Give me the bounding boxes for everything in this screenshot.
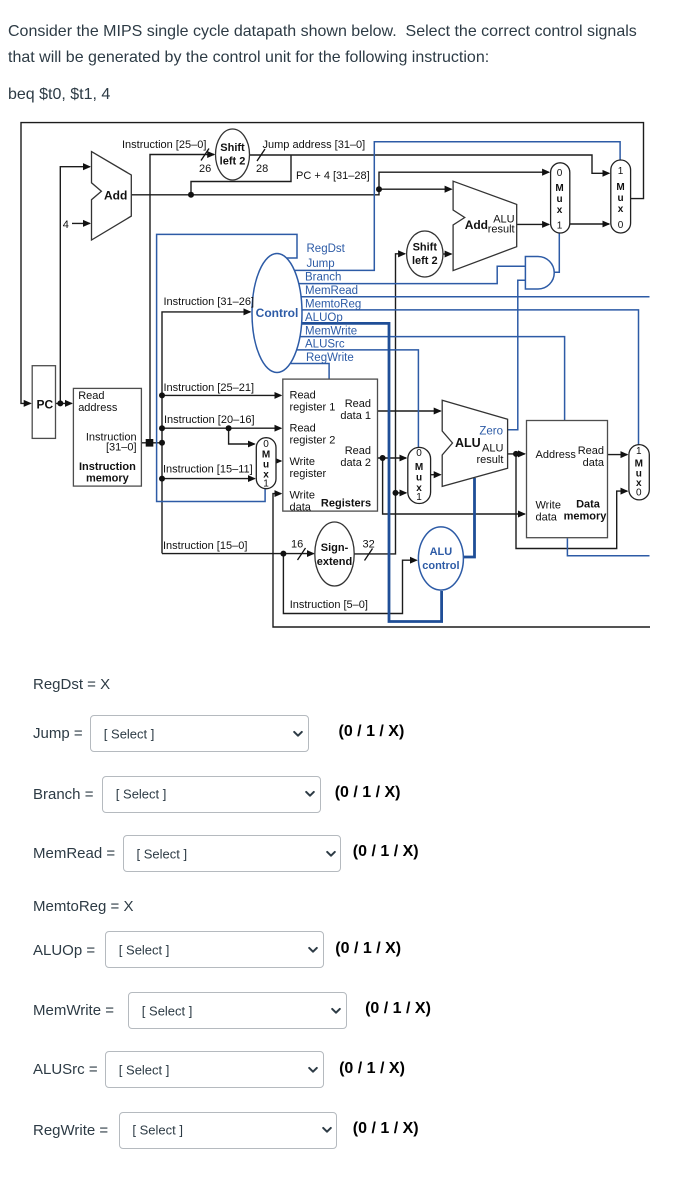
svg-text:0: 0 (263, 439, 269, 450)
svg-text:32: 32 (363, 539, 375, 551)
svg-text:PC + 4 [31–28]: PC + 4 [31–28] (296, 170, 370, 182)
svg-text:Add: Add (465, 218, 488, 232)
svg-text:[31–0]: [31–0] (106, 442, 137, 454)
svg-text:Read: Read (78, 390, 104, 402)
svg-text:memory: memory (86, 473, 130, 485)
svg-text:Registers: Registers (321, 498, 371, 510)
svg-text:data: data (290, 502, 312, 514)
svg-text:MemRead: MemRead (305, 285, 358, 297)
svg-text:28: 28 (256, 163, 268, 175)
svg-text:data 2: data 2 (340, 457, 371, 469)
svg-text:ALUOp: ALUOp (305, 312, 343, 324)
svg-text:register 1: register 1 (290, 402, 336, 414)
svg-text:Read: Read (578, 445, 604, 457)
svg-text:x: x (416, 483, 422, 494)
svg-text:Branch: Branch (305, 272, 341, 284)
svg-text:Read: Read (290, 390, 316, 402)
svg-text:Instruction [31–26]: Instruction [31–26] (164, 296, 255, 308)
svg-text:ALU: ALU (430, 546, 453, 558)
svg-text:Read: Read (345, 398, 371, 410)
svg-text:0: 0 (636, 488, 642, 499)
svg-text:u: u (556, 194, 562, 205)
svg-text:x: x (557, 205, 563, 216)
svg-text:u: u (617, 193, 623, 204)
svg-text:register 2: register 2 (290, 435, 336, 447)
svg-text:data 1: data 1 (340, 410, 371, 422)
svg-text:Add: Add (104, 189, 127, 203)
svg-text:0: 0 (557, 168, 563, 179)
svg-text:Jump address [31–0]: Jump address [31–0] (263, 139, 366, 151)
svg-text:Control: Control (256, 306, 299, 320)
svg-text:extend: extend (317, 556, 352, 568)
svg-text:data: data (583, 457, 605, 469)
svg-text:MemWrite: MemWrite (305, 325, 357, 337)
svg-text:1: 1 (618, 166, 624, 177)
svg-text:Sign-: Sign- (321, 542, 349, 554)
svg-text:1: 1 (557, 221, 563, 232)
svg-text:Instruction [15–0]: Instruction [15–0] (163, 540, 247, 552)
svg-text:M: M (555, 183, 563, 194)
svg-text:M: M (415, 462, 423, 473)
svg-text:Instruction [25–21]: Instruction [25–21] (164, 382, 255, 394)
svg-text:control: control (422, 560, 459, 572)
svg-text:result: result (476, 454, 503, 466)
svg-text:RegWrite: RegWrite (306, 352, 354, 364)
svg-text:x: x (636, 478, 642, 489)
svg-text:Instruction [5–0]: Instruction [5–0] (290, 599, 368, 611)
svg-text:Instruction [25–0]: Instruction [25–0] (122, 139, 206, 151)
svg-text:0: 0 (618, 220, 624, 231)
svg-text:Write: Write (290, 456, 315, 468)
svg-text:data: data (536, 512, 558, 524)
svg-text:Instruction [20–16]: Instruction [20–16] (164, 414, 255, 426)
svg-text:Shift: Shift (220, 142, 245, 154)
svg-text:Zero: Zero (479, 426, 503, 438)
svg-text:PC: PC (36, 398, 53, 412)
svg-text:u: u (416, 473, 422, 484)
svg-text:x: x (263, 470, 269, 481)
svg-text:Jump: Jump (307, 258, 335, 270)
svg-text:address: address (78, 402, 118, 414)
svg-text:RegDst: RegDst (307, 243, 346, 255)
svg-text:register: register (290, 468, 327, 480)
svg-text:Address: Address (536, 449, 577, 461)
svg-text:Instruction: Instruction (79, 461, 136, 473)
svg-text:Write: Write (290, 490, 315, 502)
svg-text:ALU: ALU (482, 443, 503, 455)
svg-text:M: M (616, 182, 624, 193)
svg-text:16: 16 (291, 539, 303, 551)
svg-text:Read: Read (290, 423, 316, 435)
svg-text:Shift: Shift (413, 242, 438, 254)
svg-text:Write: Write (536, 500, 561, 512)
svg-text:Instruction [15–11]: Instruction [15–11] (163, 464, 253, 476)
svg-text:x: x (618, 204, 624, 215)
svg-text:result: result (488, 224, 515, 236)
svg-text:26: 26 (199, 163, 211, 175)
svg-text:left 2: left 2 (220, 156, 246, 168)
svg-text:memory: memory (564, 511, 608, 523)
svg-text:4: 4 (63, 219, 69, 231)
svg-text:ALUSrc: ALUSrc (305, 339, 345, 351)
svg-text:ALU: ALU (455, 436, 481, 450)
svg-text:MemtoReg: MemtoReg (305, 299, 361, 311)
svg-text:1: 1 (636, 446, 642, 457)
svg-text:left 2: left 2 (412, 255, 438, 267)
svg-text:0: 0 (416, 448, 422, 459)
svg-text:Read: Read (345, 445, 371, 457)
svg-text:Data: Data (576, 499, 601, 511)
